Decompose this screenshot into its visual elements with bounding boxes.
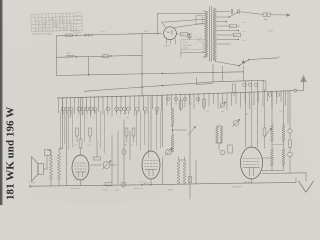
box 4V xyxy=(181,32,188,36)
wire vert x88 xyxy=(88,57,90,75)
switch contact pair xyxy=(84,34,86,36)
svg-text:5k: 5k xyxy=(252,104,254,106)
bus mid sloped W2 xyxy=(84,80,264,91)
wire tube2 anode xyxy=(150,96,152,151)
svg-text:4V: 4V xyxy=(75,24,78,26)
resistor right of tube1 xyxy=(94,157,101,160)
wire vert x157 xyxy=(156,14,158,35)
tube V2 AF7 xyxy=(142,151,160,179)
fuse/coil on AVC line xyxy=(66,55,75,57)
bus chassis (heavy) xyxy=(58,91,293,98)
wire x190 long xyxy=(189,94,191,199)
rectifier tube RGN xyxy=(164,27,177,40)
wire switch to right xyxy=(249,58,278,60)
wire left vertical xyxy=(56,36,58,76)
dense vertical wire band left xyxy=(58,98,60,113)
svg-text:25µF: 25µF xyxy=(183,47,188,49)
wire vert x142 xyxy=(141,34,143,97)
wire x118 long xyxy=(117,131,119,184)
svg-text:5000: 5000 xyxy=(103,190,109,192)
tube V3 AL4 xyxy=(241,147,263,179)
resistor row 2 xyxy=(76,128,79,136)
svg-text:µµ: µµ xyxy=(246,113,249,116)
wire coil tap right xyxy=(173,129,187,131)
wire speaker to trafo xyxy=(44,168,48,170)
tap box 220 xyxy=(230,24,237,28)
IF coil pair x172 xyxy=(171,108,174,126)
resistor x230 vert xyxy=(228,145,233,153)
wire AVC line y57 xyxy=(57,55,143,57)
svg-text:6,3V: 6,3V xyxy=(74,20,79,22)
wire tube3 to coil xyxy=(263,157,273,159)
wire x130 xyxy=(129,131,131,160)
svg-text:REN 904: REN 904 xyxy=(70,188,80,190)
svg-text:2×50: 2×50 xyxy=(183,41,189,44)
cap circle x222 bottom xyxy=(220,150,225,155)
potentiometer x236 xyxy=(233,120,238,125)
wire step x222 xyxy=(222,66,224,82)
trimmer with arrow x222 xyxy=(220,103,224,107)
wire tube3 grid xyxy=(245,81,247,147)
wire trafo to switch xyxy=(215,62,238,66)
wire x196 xyxy=(195,160,197,184)
rect pin lead 3 xyxy=(170,40,172,44)
wire x112 long xyxy=(111,135,113,183)
output transformer winding 2 xyxy=(58,152,61,179)
svg-text:RES 964: RES 964 xyxy=(134,188,144,190)
bottom line mid xyxy=(160,184,212,185)
resistor vert x264 xyxy=(263,81,266,90)
rect pin lead xyxy=(175,39,177,44)
mains transformer core xyxy=(208,7,210,62)
lamp cross xyxy=(197,37,203,44)
connection blocks left xyxy=(196,16,203,25)
electrolytic oval x124 xyxy=(122,149,126,155)
mains plug fuse xyxy=(263,13,266,17)
tube V1 AF7 xyxy=(72,155,89,180)
x tick left end xyxy=(29,185,31,187)
output transformer winding 1 xyxy=(50,155,53,179)
electrolytic block dashed xyxy=(181,40,203,50)
resistor above tube1 xyxy=(79,139,82,148)
wire coil link xyxy=(272,143,284,145)
wire rect top anode xyxy=(157,13,204,15)
wire x243 to bus xyxy=(243,66,245,81)
svg-text:220V~: 220V~ xyxy=(268,31,275,33)
mains arrow xyxy=(287,14,290,16)
series cap chain x290 xyxy=(289,91,291,129)
wire block to trafo xyxy=(181,52,204,54)
secondary winding xyxy=(213,8,216,60)
resistor R on AVC line xyxy=(102,55,109,58)
cap box on x190 xyxy=(188,177,191,183)
svg-text:250V: 250V xyxy=(74,15,80,17)
antenna coil x272 xyxy=(271,91,273,124)
mains line xyxy=(241,12,264,15)
wire x62 to chassis bus xyxy=(62,98,64,149)
wire x97 xyxy=(96,140,98,157)
antenna socket xyxy=(294,89,297,92)
trimmer capacitor row xyxy=(61,107,65,111)
wire tube3 mid lead xyxy=(251,81,253,147)
svg-text:181 WK und 196 W: 181 WK und 196 W xyxy=(5,107,17,200)
hook up at right end xyxy=(295,178,297,183)
bus B+ y73 xyxy=(57,72,244,76)
earth/ground symbol xyxy=(305,173,307,181)
junction W2/x162 xyxy=(162,85,164,87)
wire filament bend xyxy=(162,22,166,27)
pot arrow x192 xyxy=(189,127,196,136)
field coil box xyxy=(45,150,51,156)
rect pin lead 2 xyxy=(166,39,168,43)
wire tube1 to pot xyxy=(91,164,102,166)
wire coil bottoms xyxy=(262,170,284,172)
wire filament 2 xyxy=(174,23,205,27)
loudspeaker xyxy=(32,157,39,181)
resistor vert x234 xyxy=(233,84,236,93)
primary winding xyxy=(204,11,207,57)
cap at 189 xyxy=(187,35,191,37)
scan left edge strip xyxy=(0,0,3,205)
svg-text:REN 904: REN 904 xyxy=(232,187,242,189)
antenna symbol xyxy=(301,76,307,82)
resistor vert x181 xyxy=(180,100,183,109)
dense vertical wire band right xyxy=(166,95,168,106)
wire grid line y36 to rectifier xyxy=(57,33,162,36)
resistor vert x204 xyxy=(203,99,206,107)
wire tube1 anode xyxy=(80,98,82,140)
mains voltage taps xyxy=(217,11,230,13)
svg-text:GW 4: GW 4 xyxy=(164,46,171,48)
wire x124 long xyxy=(123,120,125,185)
tap box 125 xyxy=(234,33,241,37)
cap on bottom line xyxy=(121,182,126,187)
pot arrow over coil x268 xyxy=(265,129,272,137)
tube data table xyxy=(31,13,83,36)
svg-text:1,2n: 1,2n xyxy=(144,31,149,33)
wire step x213 xyxy=(212,64,214,82)
wire block down xyxy=(180,50,182,58)
junction bus1/x142 xyxy=(141,73,143,75)
wire antenna to set xyxy=(292,89,304,91)
wire to earth xyxy=(262,172,306,175)
svg-text:1M: 1M xyxy=(124,145,127,147)
volume potentiometer xyxy=(103,162,110,169)
long verticals through band xyxy=(60,111,62,150)
voltage selector lever xyxy=(229,12,239,17)
arrow on x243 xyxy=(242,60,244,63)
L-wire x196 xyxy=(196,78,198,85)
mains switch lever xyxy=(239,60,249,66)
coil pair x216/x222 xyxy=(216,126,219,143)
resistor on grid line xyxy=(66,34,73,37)
wire x162 down xyxy=(162,96,164,147)
svg-text:20000: 20000 xyxy=(29,182,36,184)
svg-text:5k: 5k xyxy=(169,104,171,106)
wire filament 1 xyxy=(162,19,205,22)
svg-text:4,2V: 4,2V xyxy=(101,31,106,33)
svg-text:4,5V 4V: 4,5V 4V xyxy=(74,33,82,35)
wire x66 down xyxy=(66,112,68,186)
svg-text:UKW: UKW xyxy=(168,190,174,192)
wire antenna down xyxy=(287,91,289,124)
small pot with arrow near tube2 xyxy=(166,149,172,155)
antenna coil x283 xyxy=(283,91,285,124)
resistor on bottom line xyxy=(105,183,112,186)
oscillator coil pair xyxy=(177,160,180,184)
bottom chassis line xyxy=(30,185,160,187)
speaker driver xyxy=(38,164,44,175)
capacitor/trimmer row right xyxy=(166,97,170,101)
resistor vert x264 low xyxy=(263,128,266,136)
